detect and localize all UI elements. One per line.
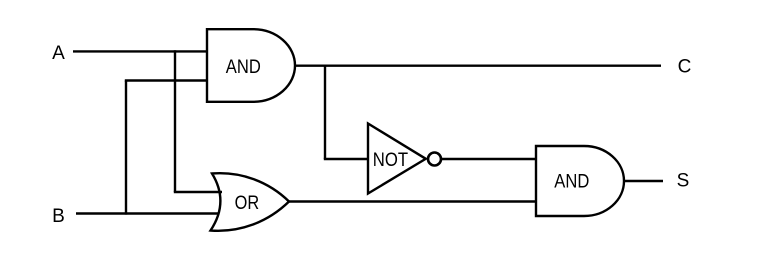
wire AND1 output to C [295, 64, 661, 66]
not-gate U3 triangle [368, 124, 426, 194]
wire A tap vertical [174, 50, 176, 192]
svg-text:OR: OR [235, 193, 260, 214]
svg-text:S: S [677, 171, 690, 192]
wire B tap to AND1 lower input [125, 79, 207, 81]
svg-text:B: B [52, 206, 65, 227]
and-gate U1 body [207, 29, 295, 102]
or-gate U2 body [211, 173, 290, 231]
and-gate U4 body [536, 146, 624, 216]
wire into NOT input [324, 158, 368, 160]
wire NOT output to AND2 top input [441, 158, 536, 160]
not-gate U3 bubble [428, 153, 441, 166]
wire B input [76, 212, 219, 214]
wire B tap vertical [125, 81, 127, 215]
svg-text:AND: AND [554, 172, 589, 193]
wire branch down to NOT [324, 65, 326, 159]
svg-text:NOT: NOT [373, 150, 409, 171]
wire A tap to OR top input [174, 191, 222, 193]
wire OR output to AND2 bottom input [289, 200, 536, 202]
svg-text:AND: AND [226, 57, 261, 78]
svg-text:C: C [678, 57, 692, 78]
svg-text:A: A [52, 43, 65, 64]
wire A input [73, 50, 207, 52]
wire AND2 output to S [624, 180, 663, 182]
